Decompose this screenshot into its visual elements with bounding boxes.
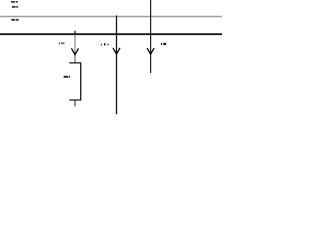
wire W2 (feeder at x=116.5 from gray bus to bottom): [116, 15, 118, 114]
node label Bus2: [11, 19, 18, 21]
arrowhead on W1: [147, 48, 154, 54]
node label Bus1 line1: [11, 1, 18, 2]
bus B1 (gray horizontal bus): [0, 16, 222, 18]
value label left of W2: [101, 43, 109, 45]
value label left of load L1: [64, 76, 70, 78]
arrowhead on W2: [113, 48, 120, 54]
value label left of W3: [59, 42, 65, 44]
load L1 bottom stub: [74, 100, 76, 106]
wire W3 lower segment (arrow to load box): [74, 54, 76, 63]
value label right of W1: [161, 43, 166, 45]
bus B2 (black horizontal bus): [0, 33, 222, 35]
wire W3 (gray branch at x=75 from black bus to arrow): [74, 35, 76, 54]
node label Bus1 line2: [12, 6, 18, 8]
wire W1 (feeder at x=150.5 from top through both buses): [150, 0, 152, 73]
arrowhead on W3: [72, 49, 79, 55]
load L1 (bracket shaped box): [69, 63, 80, 100]
node stub above black bus at x=75: [74, 31, 76, 34]
